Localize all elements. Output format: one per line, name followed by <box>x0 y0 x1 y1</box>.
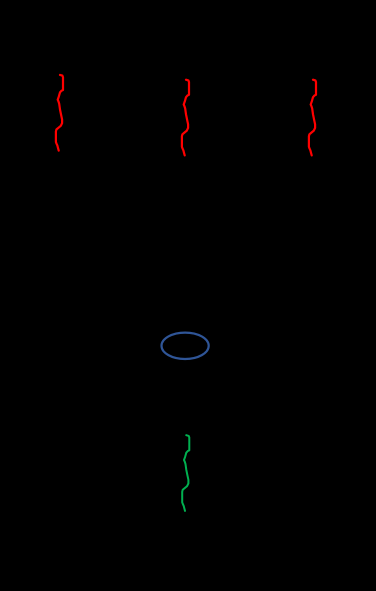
wire: bottom rail joining the three parallel branches (black ink on black background) <box>60 164 315 166</box>
wire: node A down to bottom component (black ink on black background) <box>186 360 188 430</box>
wire: top rail joining the three parallel branches (black ink on black background) <box>60 59 315 61</box>
resistor R1 (left branch, red freehand pen squiggle) <box>56 75 63 151</box>
node A (blue ellipse highlighting the meter node) <box>162 333 209 359</box>
resistor R3 (right branch, red freehand pen squiggle) <box>309 80 316 156</box>
resistor R2 (middle branch, red freehand pen squiggle) <box>182 80 189 156</box>
wire: vertical feed from rail down to node A (black ink on black background) <box>186 165 188 330</box>
resistor R4 (bottom series branch, green freehand pen squiggle) <box>182 435 189 511</box>
